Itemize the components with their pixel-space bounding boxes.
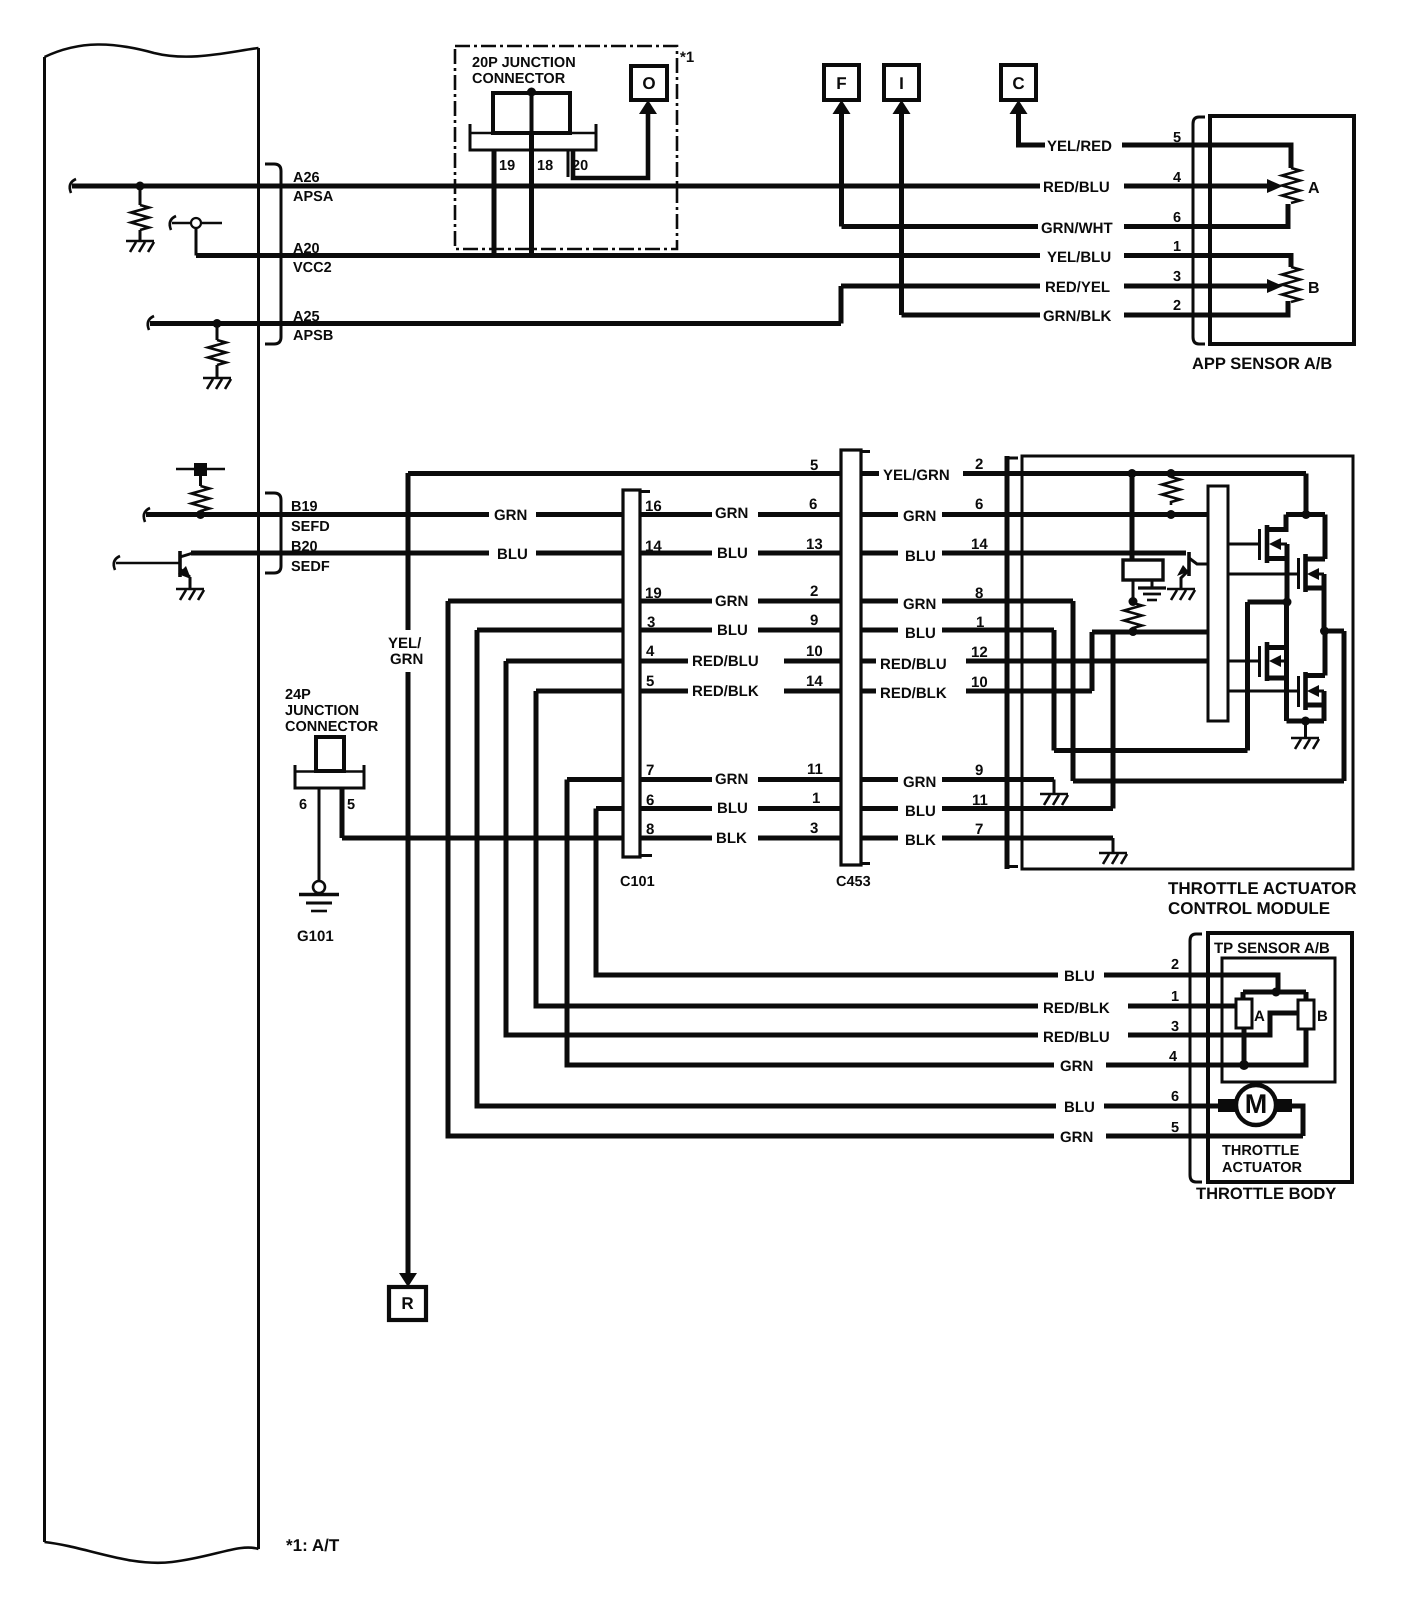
arrow into O xyxy=(639,100,657,114)
wire row YEL/GRN horizontal (C453 pin 5 to module pin 2) xyxy=(408,471,1306,476)
node resistor/BLU row xyxy=(1129,627,1138,636)
wire drop BLU to TB 2 xyxy=(596,809,1058,976)
APP sensor internal wires B xyxy=(1210,256,1291,316)
node TP bottom xyxy=(1239,1060,1249,1070)
label YEL/GRN (vertical trunk) xyxy=(388,635,423,668)
mosfet M2 xyxy=(1228,554,1325,592)
svg-text:C: C xyxy=(1012,74,1024,93)
M3 drain/source vertical xyxy=(1284,602,1289,721)
svg-text:GRN: GRN xyxy=(903,508,936,525)
node TP top xyxy=(1272,988,1281,997)
svg-text:YEL/BLU: YEL/BLU xyxy=(1047,249,1111,266)
transistor Q (module) xyxy=(1177,552,1208,589)
wire drop RED/BLK to TB 1 xyxy=(536,691,1038,1006)
svg-text:BLU: BLU xyxy=(1064,1099,1095,1116)
pin 8 riser xyxy=(1342,631,1347,781)
C101 pin numbers xyxy=(645,498,662,838)
svg-text:2: 2 xyxy=(1171,957,1179,973)
svg-text:18: 18 xyxy=(537,158,553,174)
ground (pin 9) xyxy=(1040,794,1068,805)
svg-text:1: 1 xyxy=(1173,239,1181,255)
wire RED/YEL riser from A25 xyxy=(839,286,844,324)
ground (transistor Q) xyxy=(1167,589,1195,600)
resistor (rail to GRN row) xyxy=(1162,477,1180,505)
pin 1 bottom run xyxy=(1054,748,1248,753)
node top link xyxy=(1302,510,1311,519)
svg-text:RED/BLU: RED/BLU xyxy=(1043,1029,1110,1046)
pin labels 6 5 xyxy=(299,797,355,813)
wire row GRN (B19/SEFD - C101 16 - C453 6 - module 6) xyxy=(146,512,1208,517)
svg-text:3: 3 xyxy=(1173,269,1181,285)
20P junction connector symbol xyxy=(470,88,596,178)
svg-text:2: 2 xyxy=(975,456,983,473)
node on B19 xyxy=(196,510,205,519)
svg-text:2: 2 xyxy=(1173,298,1181,314)
svg-text:7: 7 xyxy=(975,821,983,838)
wire row BLU (B20/SEDF - C101 14 - C453 13 - module 14) xyxy=(191,551,1186,556)
svg-text:6: 6 xyxy=(646,792,654,809)
20P junction connector dash-dot box xyxy=(455,46,677,249)
svg-text:12: 12 xyxy=(971,644,988,661)
connector C453 body xyxy=(841,450,870,865)
pin labels 19 18 20 xyxy=(499,158,588,174)
svg-text:CONTROL MODULE: CONTROL MODULE xyxy=(1168,899,1330,918)
svg-text:CONNECTOR: CONNECTOR xyxy=(472,71,566,87)
label 24P JUNCTION CONNECTOR xyxy=(285,687,379,735)
wire row BLU (C101 3 - C453 9 - module 1) xyxy=(477,628,1054,633)
wire 24P pin 5 to BLK row xyxy=(340,788,345,838)
M2 drain riser xyxy=(1323,515,1328,560)
svg-text:BLU: BLU xyxy=(717,800,748,817)
pin 18 wire (to VCC2) xyxy=(529,133,534,256)
svg-text:JUNCTION: JUNCTION xyxy=(285,703,359,719)
ground (pin 7) xyxy=(1099,853,1127,864)
svg-text:10: 10 xyxy=(806,643,823,660)
svg-text:BLU: BLU xyxy=(905,803,936,820)
label B20/SEDF xyxy=(291,539,330,575)
TP resistor B xyxy=(1298,1000,1314,1029)
svg-text:6: 6 xyxy=(975,496,983,513)
svg-text:APSA: APSA xyxy=(293,189,334,205)
svg-text:8: 8 xyxy=(646,821,654,838)
svg-text:GRN: GRN xyxy=(494,507,527,524)
svg-text:1: 1 xyxy=(1171,989,1179,1005)
label A26/APSA xyxy=(293,170,334,205)
M4 drain riser xyxy=(1323,631,1328,676)
pin 10 top run to IC xyxy=(1092,630,1208,635)
TB pin numbers xyxy=(1169,957,1179,1136)
wire B19 SEFD tick xyxy=(144,508,150,522)
wire labels C453-module xyxy=(880,467,950,849)
svg-text:11: 11 xyxy=(807,761,823,778)
svg-text:RED/BLU: RED/BLU xyxy=(692,653,759,670)
svg-text:RED/BLK: RED/BLK xyxy=(880,685,947,702)
arrow into C xyxy=(1010,100,1028,114)
24P junction connector symbol xyxy=(295,737,364,788)
svg-text:8: 8 xyxy=(975,585,983,602)
wire row GRN (C101 19 - C453 2 - module 8) xyxy=(448,599,1073,604)
svg-text:A26: A26 xyxy=(293,170,320,186)
svg-text:M: M xyxy=(1245,1089,1268,1119)
connector bracket B19/B20 xyxy=(265,493,281,573)
TP wiring pin 2 xyxy=(1208,975,1278,992)
svg-text:BLU: BLU xyxy=(905,548,936,565)
svg-text:RED/BLK: RED/BLK xyxy=(1043,1000,1110,1017)
APP sensor pin numbers xyxy=(1173,130,1181,314)
pigtail splice (VCC2) xyxy=(170,216,222,256)
svg-text:5: 5 xyxy=(810,457,818,474)
wire drop BLU to TB 6 xyxy=(477,630,1056,1106)
svg-text:5: 5 xyxy=(1171,1120,1179,1136)
svg-text:14: 14 xyxy=(645,538,662,555)
svg-text:C453: C453 xyxy=(836,874,871,890)
throttle body box xyxy=(1208,933,1352,1182)
wire 24P pin 6 to G101 xyxy=(318,788,321,881)
wire I to GRN/BLK xyxy=(899,113,904,315)
APP sensor internal wires A xyxy=(1210,145,1291,227)
wire YEL/GRN vertical trunk xyxy=(406,473,411,1274)
ground (A25) xyxy=(203,378,231,389)
connector box F xyxy=(824,65,859,100)
pin 1 riser xyxy=(1245,602,1250,751)
svg-text:GRN: GRN xyxy=(715,505,748,522)
svg-text:RED/BLK: RED/BLK xyxy=(692,683,759,700)
resistor (A26 pull) xyxy=(131,186,149,241)
TP resistor A xyxy=(1236,999,1252,1028)
svg-text:YEL/RED: YEL/RED xyxy=(1047,138,1112,155)
label B19/SEFD xyxy=(291,499,330,535)
svg-text:3: 3 xyxy=(647,614,655,631)
pin 10 riser xyxy=(1090,632,1095,691)
svg-text:9: 9 xyxy=(810,612,818,629)
svg-text:A25: A25 xyxy=(293,309,320,325)
link node to pin1 riser xyxy=(1248,600,1288,605)
throttle actuator motor xyxy=(1208,1085,1303,1136)
TP wiring pin 4 xyxy=(1208,1029,1306,1065)
svg-text:7: 7 xyxy=(646,762,654,779)
svg-text:1: 1 xyxy=(812,790,820,807)
resistor (A25 pull) xyxy=(208,324,226,379)
svg-text:GRN/WHT: GRN/WHT xyxy=(1041,220,1113,237)
svg-text:RED/BLU: RED/BLU xyxy=(1043,179,1110,196)
node source/ground xyxy=(1301,717,1310,726)
potentiometer A xyxy=(1282,168,1300,203)
svg-text:*1: A/T: *1: A/T xyxy=(286,1536,340,1555)
svg-text:13: 13 xyxy=(806,536,823,553)
svg-text:THROTTLE ACTUATOR: THROTTLE ACTUATOR xyxy=(1168,879,1357,898)
svg-text:20P JUNCTION: 20P JUNCTION xyxy=(472,55,576,71)
connector bracket A26/A20/A25 xyxy=(265,164,281,344)
module pin numbers (right bar) xyxy=(971,456,988,838)
connector box R xyxy=(389,1287,426,1320)
label 20P JUNCTION CONNECTOR xyxy=(472,55,576,87)
pin 20 wire to O xyxy=(573,113,648,178)
svg-text:F: F xyxy=(836,74,846,93)
svg-text:YEL/GRN: YEL/GRN xyxy=(883,467,950,484)
wire GRN/BLK xyxy=(902,313,1211,318)
TP wiring pin 1 xyxy=(1208,1004,1236,1009)
svg-text:VCC2: VCC2 xyxy=(293,260,332,276)
wire labels left of C101 xyxy=(494,507,528,563)
ground (output stage) xyxy=(1291,738,1319,749)
svg-text:24P: 24P xyxy=(285,687,311,703)
svg-text:TP SENSOR A/B: TP SENSOR A/B xyxy=(1214,940,1330,957)
wire drop GRN to TB 4 xyxy=(567,780,1054,1066)
wire labels C101-C453 xyxy=(692,505,759,847)
wire row BLU (C101 6 - C453 1 - module 11) xyxy=(596,806,1113,811)
svg-text:14: 14 xyxy=(806,673,823,690)
pin 11 riser xyxy=(1111,632,1116,809)
svg-text:5: 5 xyxy=(1173,130,1181,146)
transistor (B20 driver) xyxy=(114,551,193,589)
arrow into F xyxy=(833,100,851,114)
ground stub (output stage) xyxy=(1304,721,1307,738)
node rail/relay drop xyxy=(1128,469,1137,478)
svg-text:C101: C101 xyxy=(620,874,655,890)
svg-text:GRN/BLK: GRN/BLK xyxy=(1043,308,1111,325)
C453 left pin numbers xyxy=(806,457,823,837)
APP sensor box xyxy=(1210,116,1354,344)
relay left leg to resistor xyxy=(1132,580,1135,602)
svg-text:RED/YEL: RED/YEL xyxy=(1045,279,1110,296)
svg-text:GRN: GRN xyxy=(390,651,423,668)
TP resistor A bottom leg xyxy=(1242,1028,1247,1065)
wire A26 APSA / RED/BLU row xyxy=(70,179,1210,193)
M2 source drop xyxy=(1322,574,1327,631)
pin 8 bottom run xyxy=(1073,779,1344,784)
svg-text:19: 19 xyxy=(499,158,515,174)
pin 19 wire (to VCC2) xyxy=(492,150,497,256)
svg-text:4: 4 xyxy=(646,643,655,660)
ground (relay, earth bars) xyxy=(1138,588,1166,600)
TB wire labels xyxy=(1043,968,1110,1146)
svg-text:*1: *1 xyxy=(680,49,694,66)
supply rail YEL/GRN inside module xyxy=(1304,474,1309,515)
svg-text:CONNECTOR: CONNECTOR xyxy=(285,719,379,735)
ground G101 xyxy=(299,881,339,911)
wire row BLK (24P 5 - C101 8 - C453 3 - module 7) xyxy=(342,836,1113,841)
svg-text:BLK: BLK xyxy=(905,832,936,849)
node M2/M4 xyxy=(1320,627,1329,636)
svg-text:2: 2 xyxy=(810,583,818,600)
svg-text:BLU: BLU xyxy=(717,622,748,639)
node M1/M3 xyxy=(1283,598,1292,607)
svg-text:BLU: BLU xyxy=(905,625,936,642)
node relay leg xyxy=(1129,597,1138,606)
wire YEL/RED xyxy=(1122,143,1210,148)
svg-text:3: 3 xyxy=(1171,1019,1179,1035)
svg-text:4: 4 xyxy=(1173,170,1181,186)
svg-text:GRN: GRN xyxy=(903,596,936,613)
node on A25 xyxy=(213,319,222,328)
node on A26 xyxy=(136,182,145,191)
TP wiring pin 3 xyxy=(1208,1013,1298,1035)
svg-text:BLU: BLU xyxy=(1064,968,1095,985)
node rail/resistor xyxy=(1167,469,1176,478)
svg-text:6: 6 xyxy=(809,496,817,513)
connector box O xyxy=(631,66,667,100)
wire F to GRN/WHT xyxy=(839,113,844,227)
module connector bar xyxy=(1007,456,1018,869)
resistor (below relay) xyxy=(1124,603,1142,630)
connector C101 body xyxy=(623,490,652,857)
pin 8 drop xyxy=(1071,601,1076,781)
svg-text:GRN: GRN xyxy=(1060,1058,1093,1075)
relay coil drop xyxy=(1130,474,1135,561)
svg-text:5: 5 xyxy=(646,673,654,690)
svg-text:GRN: GRN xyxy=(715,771,748,788)
svg-text:BLU: BLU xyxy=(717,545,748,562)
wire A25 APSB xyxy=(148,316,841,330)
M1 source drop to node xyxy=(1285,544,1290,602)
ECM module outline (torn strip) xyxy=(45,44,259,1562)
svg-text:ACTUATOR: ACTUATOR xyxy=(1222,1160,1303,1176)
throttle body connector bracket xyxy=(1190,934,1202,1182)
wire row RED/BLK (C101 5 - C453 14 - module 10) xyxy=(536,689,1092,694)
potentiometer B xyxy=(1282,267,1300,302)
svg-text:O: O xyxy=(642,74,655,93)
svg-text:B: B xyxy=(1308,280,1320,297)
ground (A26) xyxy=(126,241,154,252)
svg-text:YEL/: YEL/ xyxy=(388,635,422,652)
svg-text:SEFD: SEFD xyxy=(291,519,330,535)
svg-text:A: A xyxy=(1254,1008,1265,1025)
svg-text:THROTTLE: THROTTLE xyxy=(1222,1143,1300,1159)
svg-text:G101: G101 xyxy=(297,928,334,945)
label THROTTLE ACTUATOR xyxy=(1222,1143,1303,1176)
wire RED/YEL xyxy=(841,284,1210,289)
mosfet M1 xyxy=(1228,515,1287,564)
relay coil box xyxy=(1123,560,1163,580)
wire drop GRN to TB 5 xyxy=(448,601,1054,1136)
TP sensor inner box xyxy=(1222,958,1335,1082)
svg-text:GRN: GRN xyxy=(1060,1129,1093,1146)
APP sensor bracket xyxy=(1193,117,1205,344)
svg-text:A: A xyxy=(1308,180,1320,197)
svg-text:6: 6 xyxy=(299,797,307,813)
resistor (B19) xyxy=(192,486,210,515)
M4 source drop xyxy=(1322,691,1327,721)
driver IC bar xyxy=(1208,486,1228,721)
svg-text:B: B xyxy=(1317,1008,1328,1025)
ground (B20 transistor) xyxy=(176,589,204,600)
wire drop RED/BLU to TB 3 xyxy=(506,661,1038,1035)
svg-text:SEDF: SEDF xyxy=(291,559,330,575)
svg-text:6: 6 xyxy=(1173,210,1181,226)
connector box C xyxy=(1001,65,1036,100)
svg-text:14: 14 xyxy=(971,536,988,553)
label A20/VCC2 xyxy=(293,241,332,276)
svg-text:6: 6 xyxy=(1171,1089,1179,1105)
arrow into R xyxy=(399,1273,417,1287)
svg-text:BLK: BLK xyxy=(716,830,747,847)
svg-text:I: I xyxy=(899,74,904,93)
svg-text:GRN: GRN xyxy=(903,774,936,791)
rail top link xyxy=(1286,512,1325,517)
connector box I xyxy=(884,65,919,100)
svg-text:1: 1 xyxy=(976,614,984,631)
label THROTTLE ACTUATOR CONTROL MODULE xyxy=(1168,879,1357,918)
svg-text:10: 10 xyxy=(971,674,988,691)
wire row GRN (C101 7 - C453 11 - module 9) xyxy=(567,777,1054,782)
relay right leg to chassis ground xyxy=(1151,580,1154,587)
svg-text:A20: A20 xyxy=(293,241,320,257)
pin 1 drop xyxy=(1052,630,1057,751)
arrow into I xyxy=(893,100,911,114)
pin 7 ground stub xyxy=(1112,838,1115,853)
svg-text:11: 11 xyxy=(972,792,988,809)
TB row right segments xyxy=(1104,975,1208,1136)
wire A20 VCC2 / YEL/BLU row xyxy=(196,253,1210,258)
node resistor/GRN row xyxy=(1167,510,1176,519)
svg-text:3: 3 xyxy=(810,820,818,837)
throttle actuator control module box xyxy=(1022,456,1353,869)
source bottom link xyxy=(1287,719,1325,724)
svg-text:APP SENSOR A/B: APP SENSOR A/B xyxy=(1192,355,1332,373)
wire row RED/BLU (C101 4 - C453 10 - module 12) xyxy=(506,659,1208,664)
svg-text:GRN: GRN xyxy=(715,593,748,610)
svg-text:16: 16 xyxy=(645,498,662,515)
link riser to node M2/M4 xyxy=(1325,629,1345,634)
svg-text:4: 4 xyxy=(1169,1049,1177,1065)
svg-text:THROTTLE BODY: THROTTLE BODY xyxy=(1196,1185,1336,1203)
svg-text:5: 5 xyxy=(347,797,355,813)
pin 9 ground stub xyxy=(1053,780,1056,795)
svg-text:19: 19 xyxy=(645,585,662,602)
svg-text:R: R xyxy=(401,1294,413,1313)
mosfet M3 xyxy=(1228,642,1287,681)
svg-text:BLU: BLU xyxy=(497,546,528,563)
label A25/APSB xyxy=(293,309,333,344)
svg-text:9: 9 xyxy=(975,762,983,779)
TP top links xyxy=(1243,992,1306,1000)
mosfet M4 xyxy=(1228,672,1325,710)
svg-text:RED/BLU: RED/BLU xyxy=(880,656,947,673)
power tap (B19) xyxy=(176,463,225,486)
svg-text:APSB: APSB xyxy=(293,328,333,344)
wire C to YEL/RED xyxy=(1019,113,1046,145)
wire GRN/WHT xyxy=(842,224,1211,229)
